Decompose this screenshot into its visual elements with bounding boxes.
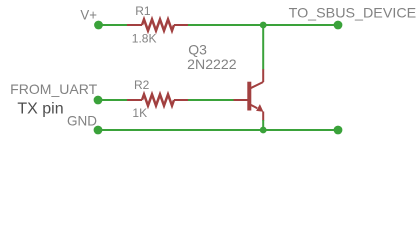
base pin stub [234,99,248,101]
collector diagonal [251,82,264,88]
svg-text:1.8K: 1.8K [132,32,157,46]
svg-text:R2: R2 [134,78,150,92]
wire R1 to junction to TO_SBUS_DEVICE [188,24,338,26]
collector pin stub [262,69,264,82]
junction dot bottom [260,127,267,134]
wire emitter down to GND rail [262,120,264,130]
svg-text:GND: GND [67,112,97,128]
base bar [247,82,251,111]
node GND dot [94,126,103,135]
wire GND rail [98,129,338,131]
svg-text:2N2222: 2N2222 [187,56,237,72]
wire FROM_UART to R2 [98,99,128,101]
svg-text:1K: 1K [132,106,147,120]
node GND rail end dot [334,126,343,135]
svg-text:TO_SBUS_DEVICE: TO_SBUS_DEVICE [289,5,417,21]
emitter diagonal [251,105,258,109]
junction dot top [260,22,267,29]
wire junction down to collector [262,25,264,70]
emitter arrowhead [256,104,263,112]
svg-text:V+: V+ [80,7,97,23]
node FROM_UART dot [94,96,103,105]
svg-text:FROM_UART: FROM_UART [10,81,97,97]
svg-text:TX pin: TX pin [17,101,63,118]
svg-text:R1: R1 [135,4,151,18]
resistor R1 [127,19,188,30]
node V+ dot [94,21,103,30]
wire R2 to base [188,99,234,101]
node TO_SBUS_DEVICE dot [334,21,343,30]
wire V+ to R1 [99,24,129,26]
resistor R2 [127,94,188,105]
transistor Q3 [234,69,264,121]
emitter pin stub [262,112,264,121]
